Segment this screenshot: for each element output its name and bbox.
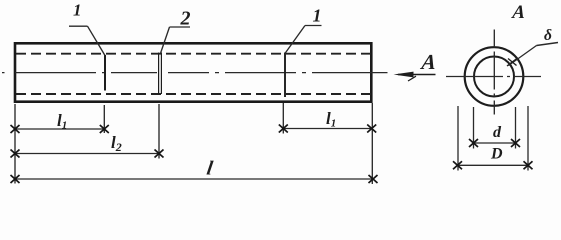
extension line at seam 1 left — [103, 105, 105, 133]
svg-text:l1: l1 — [57, 111, 67, 132]
dimension line L overall — [15, 178, 373, 180]
svg-text:A: A — [511, 2, 526, 23]
dimension line D — [458, 164, 529, 166]
svg-text:l1: l1 — [326, 109, 336, 130]
tick d end — [511, 139, 520, 147]
arrowhead of delta leader — [507, 58, 518, 66]
tick D end — [524, 161, 533, 169]
svg-text:1: 1 — [313, 6, 322, 26]
section horizontal centerline — [446, 76, 541, 78]
pipe centerline — [2, 72, 388, 74]
extension line at seam 1 right — [282, 103, 284, 134]
leader for label 1 right — [285, 26, 321, 54]
weld seam 1 right — [284, 53, 286, 98]
weld seam 2 (double line) — [159, 53, 162, 95]
svg-text:1: 1 — [73, 1, 82, 20]
pipe inner wall hidden line top — [16, 53, 371, 55]
tick l1 right end — [367, 125, 376, 133]
tick D start — [453, 161, 462, 169]
pipe inner wall hidden line bottom — [16, 93, 371, 95]
view direction arrowhead — [394, 72, 414, 78]
weld seam 1 left — [104, 55, 106, 91]
dimension line l1 right — [283, 128, 371, 130]
section inner circle d — [474, 57, 514, 97]
svg-text:A: A — [418, 50, 437, 74]
section outer circle D — [465, 47, 524, 106]
svg-text:l: l — [205, 158, 214, 180]
tick l2 end — [155, 150, 164, 158]
extension line d left — [473, 107, 475, 149]
dimension line l1 left — [15, 128, 104, 130]
svg-text:l2: l2 — [111, 133, 122, 154]
leader for label 2 — [161, 27, 190, 53]
extension line left (pipe end) — [14, 104, 16, 184]
shelf line under delta — [537, 43, 559, 46]
tick l1 left end — [100, 125, 109, 133]
section vertical centerline — [493, 30, 495, 118]
dimension line d — [474, 142, 516, 144]
extension line d right — [515, 107, 517, 149]
svg-text:δ: δ — [544, 27, 552, 44]
extension line at seam 2 — [158, 104, 160, 159]
svg-text:d: d — [493, 124, 502, 141]
dimension line l2 — [15, 153, 159, 155]
tick L end — [369, 175, 378, 183]
extension line right (pipe end) — [371, 103, 373, 184]
extension line D left — [457, 106, 459, 171]
tick l1 left start — [11, 125, 20, 133]
extension line D right — [527, 106, 529, 171]
view direction arrow shaft — [398, 74, 436, 76]
tick l2 start — [11, 150, 20, 158]
leader for label 1 left — [69, 26, 105, 55]
pipe body outline (side view) — [15, 43, 371, 101]
tick L start — [11, 175, 20, 183]
leader for delta — [509, 46, 537, 66]
tick l1 right start — [279, 125, 288, 133]
svg-text:2: 2 — [180, 8, 191, 30]
svg-text:D: D — [490, 146, 503, 163]
tick d start — [469, 139, 478, 147]
